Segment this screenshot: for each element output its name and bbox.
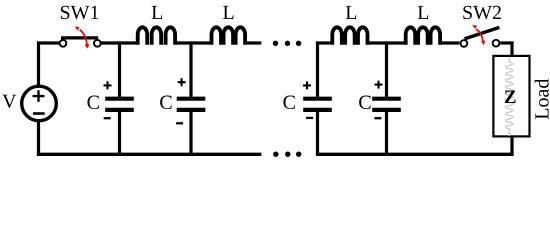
switch SW1 blade <box>61 36 98 39</box>
wire load bottom lead <box>510 136 513 156</box>
capacitor C4 plus sign <box>375 81 383 89</box>
label L (L2) <box>223 6 233 19</box>
capacitor C2 top lead <box>189 41 192 96</box>
capacitor C2 bottom lead <box>189 112 192 156</box>
capacitor C1 bottom plate <box>105 108 134 112</box>
capacitor C1 bottom lead <box>118 112 121 156</box>
inductor L1 <box>138 27 175 44</box>
capacitor C4 top plate <box>372 97 401 101</box>
label L (L3) <box>346 6 356 19</box>
ellipsis dots bottom <box>273 152 278 157</box>
capacitor C2 plus sign <box>178 78 186 86</box>
label Load (rotated) <box>535 79 549 119</box>
capacitor C1 minus sign <box>104 117 111 119</box>
capacitor C1 plus sign <box>104 81 112 89</box>
wire L2 to break <box>246 41 262 44</box>
load grey squiggle <box>506 57 514 136</box>
ellipsis dots top <box>273 41 278 46</box>
switch SW2 blade <box>465 27 500 39</box>
capacitor C4 minus sign <box>374 117 381 119</box>
capacitor C2 top plate <box>177 97 206 101</box>
capacitor C3 top lead <box>316 41 319 96</box>
wire SW1 to L1 <box>101 41 137 44</box>
switch SW2 red toggle arrow <box>472 25 485 46</box>
load impedance box <box>493 56 529 136</box>
label Z <box>505 91 516 103</box>
inductor L4 <box>406 27 440 44</box>
switch SW2 left contact <box>461 40 468 47</box>
wire second section top <box>316 41 331 44</box>
capacitor C4 top lead <box>385 41 388 96</box>
label C (C1) <box>87 96 98 109</box>
switch SW1 right contact <box>94 40 101 47</box>
capacitor C1 top plate <box>105 97 134 101</box>
voltage source plus sign <box>33 90 45 102</box>
wire bottom-left segment <box>37 153 262 156</box>
switch SW1 red toggle arrow <box>75 26 90 48</box>
wire load top lead <box>510 41 513 56</box>
capacitor C3 bottom plate <box>303 108 332 112</box>
wire SW2 to load <box>500 41 513 44</box>
label C (C2) <box>160 96 171 109</box>
switch SW2 right contact <box>493 40 500 47</box>
capacitor C3 minus sign <box>306 117 313 119</box>
capacitor C4 bottom lead <box>385 112 388 156</box>
label V <box>2 95 16 108</box>
label L (L4) <box>418 6 428 19</box>
label SW2 <box>463 6 501 20</box>
wire top-left segment <box>37 41 59 44</box>
inductor L2 <box>212 27 246 44</box>
capacitor C2 minus sign <box>176 122 183 124</box>
wire L3 to L4 <box>369 41 405 44</box>
capacitor C3 plus sign <box>303 81 311 89</box>
capacitor C2 bottom plate <box>177 108 206 112</box>
inductor L3 <box>332 27 367 44</box>
voltage source minus sign <box>33 112 45 115</box>
label C (C3) <box>283 96 294 109</box>
wire L4 to SW2 <box>441 41 459 44</box>
capacitor C3 top plate <box>303 97 332 101</box>
switch SW1 left contact <box>60 40 67 47</box>
wire bottom-right segment <box>316 153 514 156</box>
label L (L1) <box>152 6 162 19</box>
wire L1 to L2 <box>176 41 211 44</box>
label SW1 <box>61 6 98 20</box>
capacitor C3 bottom lead <box>316 112 319 156</box>
capacitor C4 bottom plate <box>372 108 401 112</box>
capacitor C1 top lead <box>118 41 121 96</box>
label C (C4) <box>359 96 370 109</box>
voltage source V1 circle <box>22 86 57 121</box>
wire source bottom lead <box>37 121 40 156</box>
wire left vertical (source top lead) <box>37 41 40 86</box>
